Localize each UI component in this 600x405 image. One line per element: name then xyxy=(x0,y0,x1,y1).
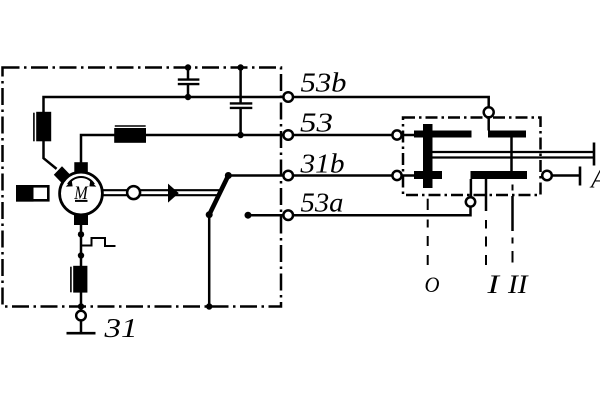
junction housing ground xyxy=(78,303,84,309)
ground lead xyxy=(80,320,83,333)
junction pivot housing xyxy=(206,303,212,309)
switch S1 top terminal circle xyxy=(484,107,494,117)
wire 53 right (terminal 53 to switch) xyxy=(293,134,392,137)
park switch lever top dot xyxy=(225,172,232,179)
svg-text:53b: 53b xyxy=(301,68,347,98)
svg-text:A: A xyxy=(589,165,600,194)
switch S1 left terminal 53 xyxy=(392,130,401,139)
wire 53a right (terminal 53a to switch bottom terminal) xyxy=(293,207,471,216)
park switch pivot dot xyxy=(206,211,213,218)
drive shaft double line lower xyxy=(102,194,218,196)
svg-text:31: 31 xyxy=(103,313,137,343)
svg-text:O: O xyxy=(425,272,440,297)
switch contact bar bottom-right xyxy=(471,171,528,179)
right lead end bar xyxy=(579,167,582,186)
capacitor C1 lead to wire 53b xyxy=(187,85,190,97)
drive shaft double line upper xyxy=(102,189,220,191)
position line O (dash-dot) xyxy=(427,199,429,265)
junction C1 53b xyxy=(185,94,191,100)
choke L2 xyxy=(114,128,146,143)
switch S1 left terminal 31b xyxy=(392,171,401,180)
choke L1 core line xyxy=(33,113,35,142)
capacitor C2 lead to wire 53 xyxy=(239,109,242,135)
choke L3 core line xyxy=(70,267,72,293)
switch S1 bottom terminal circle xyxy=(466,197,475,206)
svg-text:I: I xyxy=(486,270,501,299)
switch S1 right terminal circle xyxy=(542,171,552,181)
pulse (intermittent) symbol xyxy=(81,238,116,246)
actuator shaft double line lower xyxy=(433,156,595,158)
capacitor C1 xyxy=(178,80,200,85)
wire 53b left (inside box, from choke L1 to terminal 53b) xyxy=(44,97,284,113)
motor brush bottom xyxy=(74,215,88,225)
ground bar 31 xyxy=(67,332,96,335)
switch contact bar top-left xyxy=(414,131,472,138)
wire top terminal to contact bar xyxy=(487,117,490,130)
shaft joint circle xyxy=(127,186,140,199)
switch S1 housing box (dash-dot border) xyxy=(403,118,541,196)
shaft direction arrow xyxy=(168,184,179,203)
thermal switch black half xyxy=(16,185,34,202)
wire choke L3 to housing xyxy=(80,292,83,311)
wire right terminal out xyxy=(552,174,580,177)
brush B2 (high-speed, diamond) xyxy=(54,166,70,183)
terminal 53b xyxy=(283,92,293,102)
switch contact bar bottom-left xyxy=(414,171,442,179)
terminal 53a xyxy=(283,210,293,220)
wire 31b left (lever to terminal 31b) xyxy=(228,174,283,177)
svg-text:53: 53 xyxy=(300,108,333,138)
wire bottom-right bar to bottom terminal xyxy=(470,179,473,197)
park contact 53a stub xyxy=(248,214,284,217)
junction pulse bottom xyxy=(78,252,84,258)
motor rotation arc xyxy=(68,177,94,184)
actuator shaft end bar xyxy=(593,143,596,166)
svg-text:53a: 53a xyxy=(301,188,344,218)
junction C1 housing xyxy=(185,64,191,70)
wire between top-right and bottom-right bars xyxy=(510,138,513,172)
wire motor top brush to choke L2 xyxy=(81,135,115,163)
switch contact bar vertical (movable bridge) xyxy=(423,124,433,188)
motor arc arrowhead right xyxy=(89,181,96,187)
park contact 53a dot xyxy=(245,212,252,219)
wire motor bottom brush down xyxy=(80,225,83,267)
terminal 53 xyxy=(283,130,293,140)
terminal 31b xyxy=(283,171,293,181)
wire 53 left (choke L2 to terminal 53) xyxy=(146,134,284,137)
motor arc arrowhead left xyxy=(66,181,73,187)
position line II solid part xyxy=(511,196,514,231)
wire park pivot to housing xyxy=(208,215,211,307)
park switch lever xyxy=(209,176,228,215)
choke L2 core line xyxy=(115,125,146,127)
motor label M underline xyxy=(75,200,88,202)
junction C2 housing xyxy=(237,64,243,70)
capacitor C1 lead to housing xyxy=(187,68,190,79)
position line I dashes xyxy=(485,220,487,265)
position line I solid part xyxy=(485,178,488,212)
capacitor C2 lead to housing xyxy=(239,68,242,103)
position line II dash top xyxy=(512,185,514,191)
terminal 31 circle xyxy=(76,311,86,321)
svg-text:31b: 31b xyxy=(299,149,344,179)
thermal switch (bimetal) body xyxy=(17,186,48,200)
choke L1 xyxy=(36,112,51,142)
choke L3 xyxy=(73,266,87,293)
junction C2 53 xyxy=(237,132,243,138)
wiper unit housing box (dash-dot border) xyxy=(3,68,282,307)
position line II dashes xyxy=(512,238,514,263)
svg-text:II: II xyxy=(507,270,529,299)
wire stub 31b into switch xyxy=(402,174,415,177)
motor brush top xyxy=(74,162,88,173)
actuator shaft double line upper xyxy=(433,151,595,153)
wire stub 53 into switch xyxy=(402,134,415,137)
capacitor C2 xyxy=(230,103,253,108)
motor M circle xyxy=(60,172,103,215)
wire choke L1 to brush B2 xyxy=(44,141,57,169)
wire 31b right (terminal 31b to switch) xyxy=(293,174,392,177)
junction pulse top xyxy=(78,231,84,237)
switch contact bar top-right xyxy=(488,131,526,138)
wire 53b right (terminal 53b to switch top terminal) xyxy=(293,97,489,107)
